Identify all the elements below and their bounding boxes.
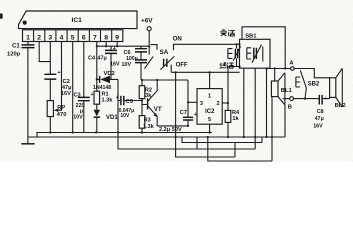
svg-text:IC1: IC1 [72, 17, 83, 24]
node 受话 (receive) label [220, 29, 235, 36]
transistor VT [148, 80, 162, 126]
svg-text:SB1: SB1 [245, 33, 257, 39]
svg-text:C1: C1 [12, 44, 20, 50]
wire IC2 pin1 stem [209, 72, 211, 88]
wire 受话 contact stem [236, 44, 238, 48]
node 送话 (talk) label [220, 62, 234, 68]
wire bus L5 [208, 137, 272, 161]
svg-text:6: 6 [82, 35, 86, 42]
svg-text:16V: 16V [61, 91, 71, 97]
wire pin5 down [72, 42, 74, 133]
svg-text:10V: 10V [120, 113, 130, 119]
speaker BL2 [330, 68, 346, 109]
svg-text:OFF: OFF [176, 63, 188, 69]
wire switched rail h [141, 79, 188, 81]
svg-text:SB2: SB2 [308, 81, 320, 87]
node junction dots pin7 [96, 45, 98, 47]
svg-text:BL2: BL2 [335, 103, 346, 109]
wire pin7 down [96, 42, 98, 92]
wire IC2 pin3 lead [188, 101, 197, 103]
svg-text:9: 9 [115, 35, 119, 42]
resistor R2 3k [139, 80, 152, 105]
speaker BL1 [271, 69, 292, 138]
diode VD2 1N4148 [93, 71, 118, 91]
svg-text:3: 3 [48, 35, 52, 42]
svg-text:1.3k: 1.3k [102, 98, 114, 104]
svg-text:ON: ON [173, 36, 183, 43]
svg-text:+: + [116, 95, 119, 101]
svg-text:16V: 16V [313, 124, 323, 130]
diode VD1 [94, 110, 119, 133]
svg-text:1: 1 [208, 93, 211, 99]
svg-text:B: B [288, 104, 292, 110]
svg-text:47μ: 47μ [315, 116, 324, 122]
node +6V supply terminal [141, 18, 153, 31]
wire emitter to C7 bottom [157, 125, 188, 127]
capacitor C3 [73, 42, 93, 133]
wire 送话 feed from amplifier output [228, 67, 240, 104]
svg-text:2: 2 [216, 101, 219, 107]
switch SA left pole contact [135, 46, 153, 68]
svg-text:1N4148: 1N4148 [93, 85, 111, 91]
node base junction [141, 99, 143, 101]
svg-text:C4: C4 [88, 55, 96, 61]
svg-text:IC2: IC2 [205, 109, 215, 115]
capacitor C7 [159, 80, 197, 133]
svg-text:100μ: 100μ [126, 56, 138, 62]
wire IC2 pin5 stem [209, 124, 211, 132]
capacitor C1 [7, 42, 35, 138]
svg-text:470: 470 [57, 112, 67, 118]
wire +6V rail down [148, 31, 150, 47]
page edge mark [0, 14, 3, 19]
svg-text:120p: 120p [7, 52, 21, 58]
node junction SB1 left edge [238, 43, 240, 45]
svg-text:4: 4 [60, 35, 64, 42]
amplifier IC2 [197, 89, 222, 125]
capacitor C4 [88, 46, 120, 80]
op-amp U1: IC1 body [19, 11, 138, 29]
wire OFF bus to IC2 pin1 [171, 71, 239, 73]
wire bus L4 talk return [176, 72, 235, 157]
svg-text:VD2: VD2 [104, 71, 115, 77]
svg-text:1: 1 [26, 35, 30, 42]
svg-text:C5: C5 [126, 99, 133, 105]
resistor R4 1k [225, 103, 240, 137]
IC1 pin row boxes pins 1-9 [23, 30, 123, 42]
wire bus L2b segment [182, 137, 262, 143]
wire bus L3 [118, 133, 255, 150]
svg-text:BL1: BL1 [281, 88, 293, 94]
svg-text:47μ: 47μ [98, 55, 107, 61]
svg-text:10V: 10V [73, 115, 83, 121]
svg-text:+6V: +6V [141, 18, 153, 25]
ground [21, 137, 34, 144]
svg-text:+: + [58, 70, 61, 76]
switch SB1 box [240, 33, 271, 68]
svg-text:1k: 1k [232, 116, 239, 122]
svg-text:16V: 16V [110, 62, 120, 68]
svg-text:+: + [194, 112, 197, 118]
svg-text:VT: VT [154, 106, 162, 113]
potentiometer RP 470 [47, 101, 66, 133]
svg-text:R3: R3 [144, 118, 151, 124]
wire node A to BL2 top [294, 69, 329, 78]
capacitor C5 [116, 95, 148, 119]
wire outer loop SB1 to node A [242, 27, 285, 69]
svg-text:10V: 10V [122, 62, 132, 68]
svg-text:2: 2 [37, 35, 41, 42]
capacitor C6 [122, 44, 151, 80]
wire VD2 right leg down to C5 line and bus [117, 79, 119, 132]
svg-text:SA: SA [160, 49, 169, 56]
svg-text:8: 8 [104, 35, 108, 42]
wire bus L1 signal ground [37, 131, 212, 137]
wire IC2 pin2 lead [222, 102, 228, 104]
wire node A line [267, 68, 291, 70]
pushbutton SB1 left contact [228, 46, 241, 66]
svg-text:VD1: VD1 [106, 115, 118, 121]
pushbutton SB1 right contact [247, 45, 263, 63]
wire pin2 to pin3 bridge [39, 42, 50, 62]
switch SA selector contact OFF [160, 56, 188, 72]
svg-text:R4: R4 [232, 110, 240, 116]
svg-text:5: 5 [71, 35, 75, 42]
node B [283, 97, 294, 111]
svg-text:+: + [91, 92, 94, 98]
capacitor C2 [44, 42, 71, 101]
svg-text:+: + [113, 46, 116, 52]
wire pin4 to RP wiper arrow [54, 42, 62, 112]
wire bus ground main [28, 105, 285, 138]
node ON position [173, 36, 240, 51]
svg-text:+: + [324, 96, 327, 102]
wire SB1 lower stems [244, 68, 267, 149]
capacitor C8 [313, 95, 329, 130]
pushbutton SB2 [296, 70, 320, 98]
svg-text:C8: C8 [317, 109, 324, 115]
resistor R1 1.3k [94, 91, 113, 110]
svg-text:7: 7 [93, 35, 97, 42]
svg-text:5: 5 [208, 117, 211, 123]
svg-text:C7: C7 [180, 110, 187, 116]
switch SA label and bracket [151, 45, 169, 56]
node A [289, 60, 294, 70]
wire top feed to C4 and +6V [97, 42, 149, 47]
svg-text:3: 3 [200, 101, 203, 107]
resistor R3 1.3k [139, 105, 154, 133]
svg-text:1.3k: 1.3k [143, 124, 155, 130]
wire node B to C8 [294, 98, 319, 100]
svg-text:C3: C3 [74, 92, 81, 98]
